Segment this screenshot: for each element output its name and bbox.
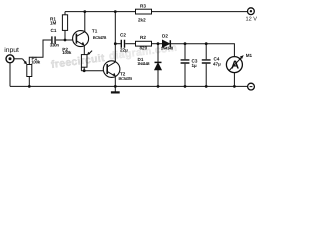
svg-text:1M: 1M bbox=[50, 21, 57, 26]
wiper arrow P1 bbox=[23, 59, 26, 63]
terminal input bbox=[6, 55, 14, 63]
svg-text:22µ: 22µ bbox=[120, 47, 128, 52]
svg-text:1N4148: 1N4148 bbox=[161, 46, 174, 51]
node T1C rail bbox=[83, 10, 86, 13]
wire P2 wiper to T2 base bbox=[81, 67, 103, 71]
wire middle row left bbox=[115, 43, 121, 45]
wire T1 collector bbox=[84, 12, 86, 32]
svg-text:C1: C1 bbox=[51, 28, 57, 33]
svg-text:820: 820 bbox=[140, 46, 148, 51]
junction dots bbox=[28, 10, 236, 88]
transistor T1 bbox=[73, 31, 89, 47]
svg-text:R3: R3 bbox=[140, 3, 146, 8]
wire R1 bottom stub bbox=[64, 30, 66, 40]
wire top rail left segment bbox=[65, 11, 136, 13]
svg-text:R2: R2 bbox=[140, 35, 146, 40]
terminal 12V bbox=[248, 8, 255, 15]
svg-text:A: A bbox=[231, 59, 239, 71]
diode D1 bbox=[157, 44, 159, 63]
wire T2 emitter bbox=[114, 76, 116, 86]
node P2 wiper bbox=[83, 69, 86, 72]
svg-text:330n: 330n bbox=[50, 42, 60, 47]
svg-text:47µ: 47µ bbox=[213, 62, 221, 67]
svg-text:1µ: 1µ bbox=[192, 63, 198, 68]
node T2E rail bbox=[114, 85, 117, 88]
node D1 bottom bbox=[157, 85, 160, 88]
capacitor C1 bbox=[52, 36, 55, 43]
svg-text:input: input bbox=[4, 47, 19, 54]
wire input to wiper bbox=[14, 58, 23, 60]
wire P2 bottom stub bbox=[83, 67, 85, 71]
resistor R3 bbox=[136, 9, 152, 14]
node D1 top bbox=[157, 42, 160, 45]
wire D2 to meter corner bbox=[171, 44, 234, 57]
node C2 tap bbox=[114, 42, 117, 45]
svg-text:T1: T1 bbox=[92, 29, 98, 34]
wire base row bbox=[56, 39, 73, 41]
wire R2 to D2 bbox=[152, 43, 163, 45]
diode D2 bbox=[162, 40, 169, 47]
capacitor C4 bbox=[205, 44, 207, 60]
potentiometer P2 bbox=[81, 55, 87, 68]
svg-text:C2: C2 bbox=[120, 32, 126, 37]
node P1 bottom bbox=[28, 85, 31, 88]
wire T2 collector bbox=[114, 12, 116, 63]
wire input down bbox=[9, 63, 11, 87]
potentiometer P1 bbox=[27, 65, 32, 77]
wire C2 to R2 bbox=[125, 43, 135, 45]
svg-text:2k2: 2k2 bbox=[138, 17, 146, 22]
svg-text:BC547B: BC547B bbox=[119, 76, 133, 81]
wire top rail right segment bbox=[152, 11, 248, 13]
node T2C rail bbox=[114, 10, 117, 13]
svg-text:M1: M1 bbox=[246, 53, 253, 58]
svg-text:100k: 100k bbox=[62, 50, 72, 55]
capacitor C3 bbox=[184, 44, 186, 60]
meter M1 bbox=[226, 57, 242, 73]
wiper arrow P2 bbox=[89, 51, 92, 54]
node meter bottom bbox=[233, 85, 236, 88]
svg-text:D2: D2 bbox=[162, 34, 168, 39]
node C3 top bbox=[184, 42, 187, 45]
node C4 top bbox=[205, 42, 208, 45]
svg-text:BC547B: BC547B bbox=[93, 35, 107, 40]
node C3 bottom bbox=[184, 85, 187, 88]
transistor T2 bbox=[103, 61, 120, 78]
watermark bbox=[50, 42, 178, 71]
terminal minus bbox=[248, 83, 255, 90]
resistor R2 bbox=[136, 41, 152, 46]
capacitor C2 bbox=[121, 40, 124, 48]
svg-text:100k: 100k bbox=[31, 60, 41, 65]
wire T1 emitter bbox=[83, 46, 85, 55]
node R1 base bbox=[64, 39, 67, 42]
wire P1 bottom stub bbox=[28, 77, 30, 87]
svg-text:12 V: 12 V bbox=[246, 17, 258, 23]
node C4 bottom bbox=[205, 85, 208, 88]
svg-text:1N4148: 1N4148 bbox=[137, 61, 150, 66]
wire C1 left bbox=[29, 40, 51, 65]
wire bottom rail bbox=[10, 85, 247, 87]
wire R1 top stub bbox=[64, 12, 66, 15]
resistor R1 bbox=[62, 15, 67, 31]
ground bbox=[114, 86, 116, 91]
